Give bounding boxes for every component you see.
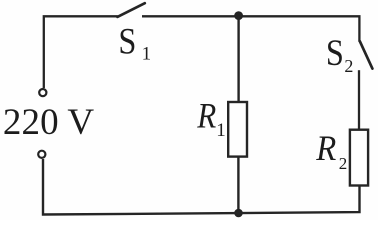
node bottom junction dot xyxy=(234,209,243,218)
svg-text:220 V: 220 V xyxy=(3,102,94,143)
switch S2 blade xyxy=(360,41,373,68)
svg-text:R: R xyxy=(196,96,216,136)
wire S2 lower contact to R2 top xyxy=(358,70,360,129)
svg-text:2: 2 xyxy=(344,56,353,76)
node top junction dot xyxy=(234,11,243,20)
terminal bottom circle xyxy=(38,151,45,158)
wire R1 branch upper xyxy=(237,16,239,102)
terminal top circle xyxy=(39,89,46,96)
svg-text:1: 1 xyxy=(142,44,152,65)
svg-text:R: R xyxy=(315,128,336,168)
switch S1 blade xyxy=(117,3,144,17)
svg-text:2: 2 xyxy=(339,154,348,173)
resistor R1 xyxy=(228,102,247,157)
resistor R2 xyxy=(350,130,368,186)
wire R1 branch lower xyxy=(237,158,239,214)
wire top-left segment (corner to S1 left contact) xyxy=(44,16,118,88)
wire top-right segment (S1 right contact to top-right corner) xyxy=(142,16,359,41)
svg-text:S: S xyxy=(118,21,136,62)
svg-text:1: 1 xyxy=(216,120,226,141)
svg-text:S: S xyxy=(326,33,344,74)
wire bottom (left corner to right corner) xyxy=(43,159,360,215)
